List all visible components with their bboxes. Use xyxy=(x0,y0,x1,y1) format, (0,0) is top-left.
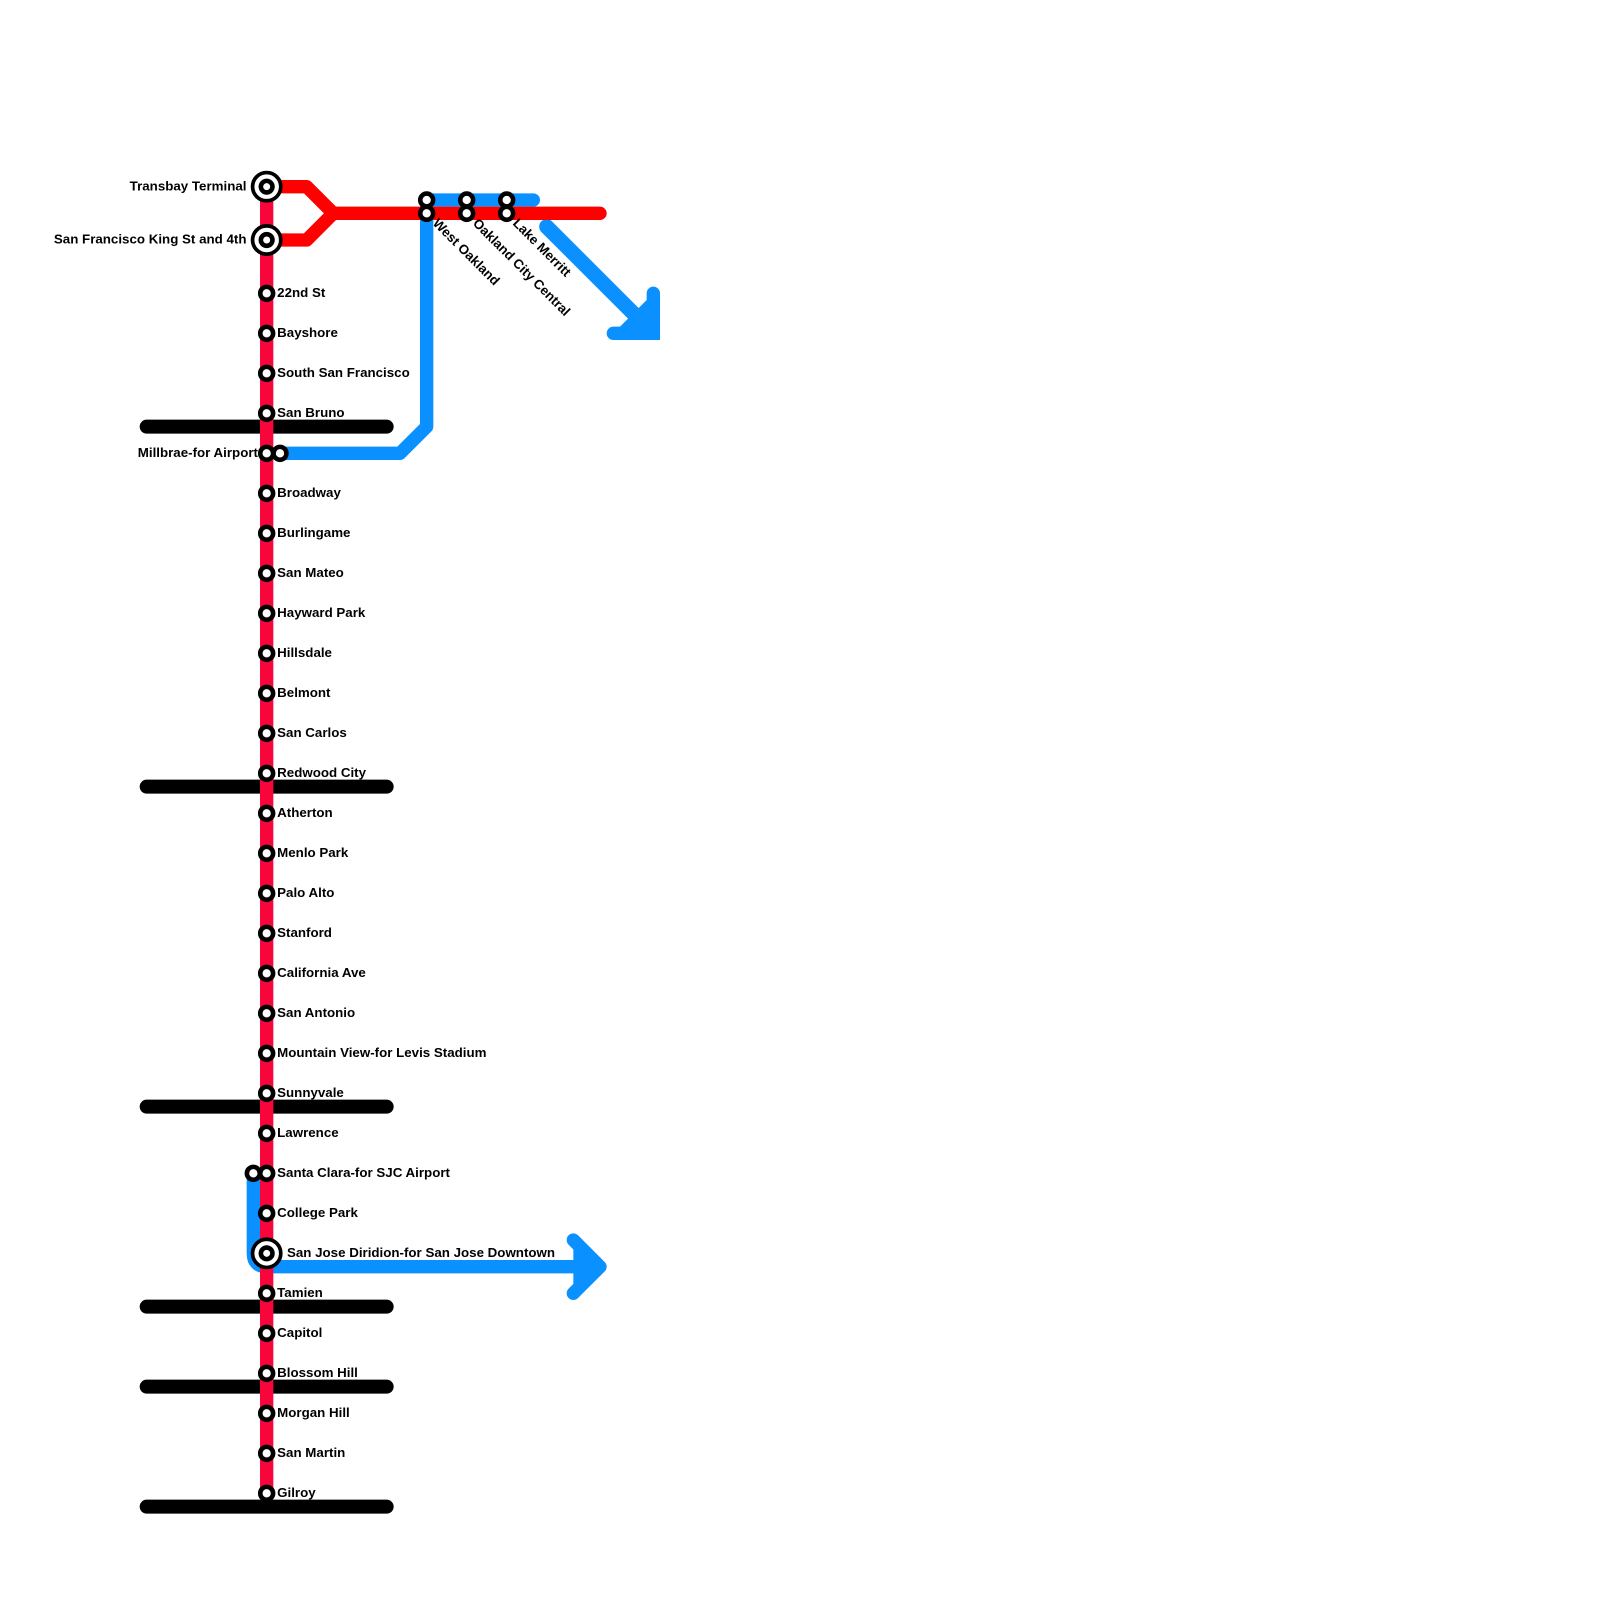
svg-text:Atherton: Atherton xyxy=(277,805,333,820)
svg-text:San Jose Diridion-for San Jose: San Jose Diridion-for San Jose Downtown xyxy=(287,1245,555,1260)
svg-text:Sunnyvale: Sunnyvale xyxy=(277,1085,344,1100)
svg-text:Hayward Park: Hayward Park xyxy=(277,605,366,620)
svg-text:Menlo Park: Menlo Park xyxy=(277,845,349,860)
svg-text:Transbay Terminal: Transbay Terminal xyxy=(130,178,247,193)
svg-text:San Martin: San Martin xyxy=(277,1445,345,1460)
svg-text:Broadway: Broadway xyxy=(277,485,341,500)
svg-text:Millbrae-for Airport: Millbrae-for Airport xyxy=(138,445,259,460)
svg-text:Mountain View-for Levis Stadiu: Mountain View-for Levis Stadium xyxy=(277,1045,486,1060)
svg-text:Redwood City: Redwood City xyxy=(277,765,366,780)
svg-text:Belmont: Belmont xyxy=(277,685,331,700)
svg-text:San Mateo: San Mateo xyxy=(277,565,344,580)
svg-text:Blossom Hill: Blossom Hill xyxy=(277,1365,358,1380)
svg-text:Hillsdale: Hillsdale xyxy=(277,645,332,660)
svg-text:Bayshore: Bayshore xyxy=(277,325,338,340)
svg-text:California Ave: California Ave xyxy=(277,965,366,980)
svg-text:College Park: College Park xyxy=(277,1205,358,1220)
svg-text:Stanford: Stanford xyxy=(277,925,332,940)
svg-text:San Bruno: San Bruno xyxy=(277,405,344,420)
svg-text:Morgan Hill: Morgan Hill xyxy=(277,1405,350,1420)
svg-text:Capitol: Capitol xyxy=(277,1325,322,1340)
svg-text:South San Francisco: South San Francisco xyxy=(277,365,410,380)
svg-text:Gilroy: Gilroy xyxy=(277,1485,316,1500)
svg-text:San Carlos: San Carlos xyxy=(277,725,347,740)
svg-text:San Francisco King St and 4th: San Francisco King St and 4th xyxy=(54,232,247,247)
svg-text:Burlingame: Burlingame xyxy=(277,525,350,540)
svg-text:Santa Clara-for SJC Airport: Santa Clara-for SJC Airport xyxy=(277,1165,450,1180)
svg-text:Lawrence: Lawrence xyxy=(277,1125,339,1140)
svg-text:Tamien: Tamien xyxy=(277,1285,323,1300)
svg-text:San Antonio: San Antonio xyxy=(277,1005,355,1020)
svg-text:Palo Alto: Palo Alto xyxy=(277,885,334,900)
svg-text:22nd St: 22nd St xyxy=(277,285,326,300)
